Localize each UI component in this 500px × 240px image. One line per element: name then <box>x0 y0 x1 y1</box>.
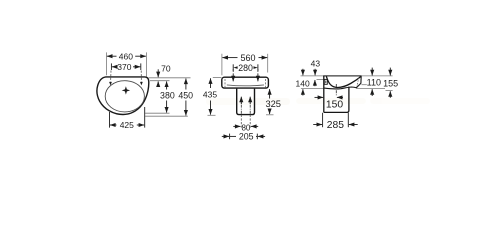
fixing hole right arrow <box>140 82 143 86</box>
svg-text:460: 460 <box>119 51 133 61</box>
ref line R2 bottom right <box>357 88 386 90</box>
dim 150 <box>315 97 344 110</box>
profile top edge <box>323 75 361 77</box>
dim 140 arrows <box>302 69 304 76</box>
ext 435 top <box>213 77 222 79</box>
dim 435 <box>203 78 217 114</box>
fixing hole left arrow <box>109 82 112 86</box>
fixing leader right <box>257 69 259 81</box>
svg-text:325: 325 <box>265 99 281 109</box>
rim inner shade <box>357 78 359 87</box>
bar hidden dashed right <box>265 79 267 87</box>
svg-text:380: 380 <box>160 90 175 100</box>
svg-text:280: 280 <box>238 63 253 73</box>
basin inner bowl <box>105 81 144 112</box>
ref line 43 bottom <box>317 78 325 80</box>
dim 70 arrows <box>157 69 159 77</box>
dim 280 ticks <box>232 64 234 71</box>
bar hidden dashed left <box>224 79 226 87</box>
dim 80 <box>233 123 258 132</box>
faucet hole star <box>122 86 130 94</box>
ref line B (380/70) <box>150 80 170 82</box>
watermark band <box>206 98 430 105</box>
svg-text:140: 140 <box>296 78 310 88</box>
dim 205 <box>222 132 265 142</box>
ref line D bottom 450 <box>145 115 188 117</box>
fixing leader left <box>232 69 234 81</box>
svg-text:285: 285 <box>327 120 344 131</box>
ref line R2 bottom left <box>301 88 324 90</box>
svg-text:560: 560 <box>240 53 255 63</box>
dim 380 <box>160 81 175 112</box>
bowl inner curve <box>326 76 361 87</box>
drain line right <box>249 97 251 128</box>
ext line 560 left <box>221 54 223 76</box>
ext line 425 left <box>109 112 111 128</box>
dim 280 <box>233 63 257 73</box>
ext dashed 370 left to hole <box>110 71 112 82</box>
ext dashed 370 right to hole <box>140 71 142 82</box>
ext 285 left <box>322 113 324 127</box>
dim 425 <box>110 120 144 130</box>
svg-text:205: 205 <box>239 132 254 142</box>
svg-text:155: 155 <box>383 79 398 89</box>
dim 560 <box>222 53 267 63</box>
svg-text:450: 450 <box>178 90 193 100</box>
bar interior line <box>227 84 264 87</box>
ext 435 bottom <box>208 114 216 116</box>
dim 460 <box>107 51 146 61</box>
drain centerline <box>335 84 337 96</box>
bracket <box>324 79 327 84</box>
svg-text:435: 435 <box>203 90 217 100</box>
rim wedge <box>324 76 361 89</box>
dim 325 <box>265 89 281 114</box>
ext 325 bottom <box>266 114 274 116</box>
basin bar outline <box>222 77 269 88</box>
svg-text:370: 370 <box>117 62 131 72</box>
pedestal side <box>324 87 349 113</box>
svg-text:425: 425 <box>120 120 134 130</box>
dim 205 ticks <box>229 134 231 140</box>
pedestal outline <box>237 89 255 115</box>
svg-text:70: 70 <box>161 64 171 74</box>
dim 110 arrows <box>371 68 373 76</box>
svg-text:43: 43 <box>311 59 321 69</box>
ext line 460 right <box>145 52 147 76</box>
dim 43 arrows <box>314 69 316 76</box>
drain line left <box>240 97 242 128</box>
dim 370 <box>112 62 140 72</box>
dim 285 <box>313 120 358 131</box>
ext 285 right <box>347 113 349 127</box>
dim 450 <box>178 79 193 116</box>
ref line A top (450/70) <box>149 77 191 79</box>
ref line 155 bottom <box>386 90 393 92</box>
ref line C bottom 380 <box>145 112 170 114</box>
ext line 460 left <box>105 52 107 75</box>
back wall <box>323 76 325 113</box>
ext line 560 right <box>267 54 269 73</box>
svg-text:110: 110 <box>367 77 381 87</box>
basin outer outline <box>97 77 149 115</box>
ref line top R0 <box>301 75 393 77</box>
dim 370 ticks <box>110 63 112 70</box>
svg-text:150: 150 <box>326 99 343 110</box>
ext line 425 right <box>144 107 146 128</box>
dim 155 arrows <box>389 68 391 76</box>
rim bottom ext <box>362 84 367 86</box>
